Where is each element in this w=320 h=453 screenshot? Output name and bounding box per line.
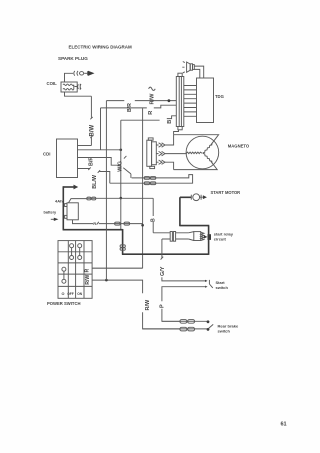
svg-text:O: O bbox=[62, 292, 65, 296]
svg-text:R: R bbox=[148, 111, 154, 115]
svg-text:ELECTRIC WIRING DIAGRAM: ELECTRIC WIRING DIAGRAM bbox=[69, 45, 132, 50]
start switch S2 bbox=[205, 280, 229, 290]
wire L1 B/R to connector bbox=[106, 101, 176, 112]
horn H1 bbox=[182, 62, 194, 73]
svg-text:R/W: R/W bbox=[145, 299, 151, 311]
svg-text:circuit: circuit bbox=[214, 237, 227, 242]
svg-text:W/G: W/G bbox=[118, 161, 124, 172]
J2 pin 1 bbox=[156, 143, 165, 147]
svg-text:R/W: R/W bbox=[85, 275, 91, 285]
connector bullets wire B bbox=[144, 182, 156, 185]
svg-text:R/W: R/W bbox=[150, 93, 156, 105]
svg-text:B/W: B/W bbox=[89, 125, 95, 137]
wire J2 pin1 to magneto top rail bbox=[165, 135, 219, 145]
svg-text:START MOTOR: START MOTOR bbox=[211, 190, 241, 195]
svg-text:TDG: TDG bbox=[215, 94, 224, 99]
wire riser from connector R line down bbox=[105, 101, 107, 281]
J2 pin 2 bbox=[156, 151, 165, 155]
svg-text:ON: ON bbox=[77, 292, 83, 296]
svg-text:61: 61 bbox=[281, 422, 287, 428]
TDG box bbox=[197, 78, 224, 123]
wire B/W coil to CDI bbox=[65, 92, 96, 146]
svg-text:switch: switch bbox=[218, 328, 231, 333]
wire CDI stub4 BL/W bbox=[78, 167, 110, 188]
node battery top wire bbox=[120, 197, 123, 200]
wire A to magneto bullets bbox=[110, 175, 193, 184]
magneto G1 bbox=[186, 136, 250, 169]
wire horn to TDG bbox=[194, 66, 203, 78]
svg-text:B: B bbox=[167, 120, 173, 124]
svg-text:BL/W: BL/W bbox=[92, 174, 98, 189]
wire B bus vertical bbox=[118, 120, 127, 230]
wire battery top B bbox=[69, 197, 154, 203]
wire G/Y relay to start switch bbox=[160, 239, 206, 281]
wire R/W power switch to rear brake bbox=[92, 280, 180, 329]
label R/W at connector bbox=[149, 87, 156, 104]
connector J1 pins bbox=[184, 86, 197, 117]
node R/W riser bbox=[105, 279, 108, 282]
wire R vertical to power switch bbox=[92, 108, 143, 268]
wire riser B/R from stub2 bbox=[100, 108, 102, 150]
svg-text:B: B bbox=[150, 218, 156, 222]
svg-text:R: R bbox=[84, 269, 90, 273]
wire P start switch to rear brake bbox=[160, 287, 207, 322]
wire B down to relay bbox=[150, 198, 156, 233]
wire W/G jog to magneto leads bbox=[123, 168, 131, 178]
CDI U1 bbox=[43, 139, 78, 178]
svg-text:P: P bbox=[160, 304, 166, 308]
svg-text:OFF: OFF bbox=[67, 292, 74, 296]
svg-text:SPARK PLUG: SPARK PLUG bbox=[58, 56, 88, 61]
wire CDI stub3 bbox=[78, 158, 121, 166]
coil T1 bbox=[47, 81, 82, 92]
power switch S1 bbox=[47, 241, 92, 306]
node at connector feed bbox=[168, 99, 171, 102]
wire connector tab to rail bbox=[174, 130, 179, 135]
magneto connector J2 bbox=[147, 138, 157, 169]
wire L2 R to connector bbox=[101, 105, 177, 115]
wire CDI stub1 bbox=[78, 145, 92, 147]
svg-text:switch: switch bbox=[216, 285, 229, 290]
svg-text:MAGNETO: MAGNETO bbox=[228, 143, 250, 148]
svg-text:POWER SWITCH: POWER SWITCH bbox=[47, 301, 81, 306]
wire R power switch feed bbox=[92, 267, 143, 269]
svg-text:B/R: B/R bbox=[127, 103, 133, 112]
svg-text:G/Y: G/Y bbox=[160, 266, 166, 276]
spark plug P1 bbox=[65, 71, 95, 82]
node fuse junction bbox=[141, 224, 144, 227]
connector bullets wire A bbox=[144, 177, 156, 180]
node on B bus bbox=[120, 149, 123, 152]
connector on thick cable bbox=[120, 245, 125, 250]
svg-text:COIL: COIL bbox=[47, 81, 58, 86]
svg-text:4Ah: 4Ah bbox=[55, 199, 63, 204]
battery BT1 bbox=[44, 199, 79, 222]
svg-text:R: R bbox=[93, 221, 96, 226]
rear brake switch S3 bbox=[143, 320, 239, 334]
wire B from connector pin to B bus bbox=[121, 116, 177, 124]
connector J1 to TDG bbox=[176, 73, 184, 130]
svg-text:B/R: B/R bbox=[88, 157, 94, 166]
wire J2 pin2 to magneto bbox=[165, 153, 186, 155]
J2 pin 3 bbox=[156, 160, 165, 164]
start relay K1 bbox=[153, 232, 233, 242]
battery thick cable loop bbox=[63, 185, 210, 255]
wire J2 pin3 to magneto bottom rail bbox=[165, 161, 217, 169]
wire CDI stub2 to node bbox=[78, 149, 121, 151]
svg-text:battery: battery bbox=[44, 211, 58, 215]
wire battery bottom with fuse bbox=[73, 220, 143, 226]
svg-text:CDI: CDI bbox=[43, 152, 50, 157]
start motor M1 bbox=[191, 190, 240, 201]
